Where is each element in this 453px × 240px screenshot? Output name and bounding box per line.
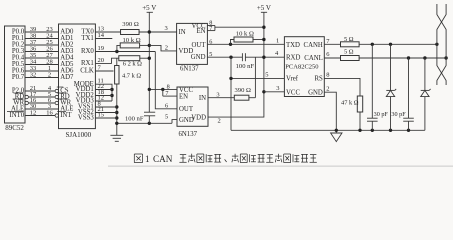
wire 89C52 INT0 (pin 12) to SJA1000 INT (pin 16): [7, 110, 72, 120]
caption: figure 1 CAN bus controller / driver circuit connection (CJK drawn as glyph strokes): [134, 154, 142, 163]
svg-text:7: 7: [165, 90, 168, 97]
svg-text:Vref: Vref: [286, 76, 299, 83]
wire VDD3 pin 12: [95, 94, 112, 101]
resistor 10k (RX0 pull-up): [117, 43, 151, 52]
wire RX0 drop to U2 OUT pin 6: [155, 52, 177, 110]
svg-text:12: 12: [30, 110, 37, 117]
label 6N137 (U2): [179, 131, 198, 138]
svg-text:RX1: RX1: [81, 60, 94, 67]
svg-text:30 pF: 30 pF: [391, 111, 406, 118]
twisted-pair CAN bus: [437, 4, 446, 85]
capacitor 100nF (series on GND5 line): [242, 53, 245, 61]
PCA82C250 pin names: [286, 42, 323, 97]
wire VSS2 pin 21: [95, 106, 116, 113]
value label 47 k ohm: [341, 100, 359, 107]
power +5V symbol (left rail): [142, 4, 156, 13]
wire P0.4 (pin 35) to AD4 (pin 27): [12, 52, 74, 62]
svg-text:+5 V: +5 V: [257, 4, 271, 12]
svg-text:INT: INT: [60, 112, 72, 119]
svg-text:INT0: INT0: [9, 112, 24, 119]
wire P0.5 (pin 34) to AD5 (pin 28): [12, 59, 74, 69]
svg-text:RS: RS: [314, 76, 323, 83]
wire Vref pin 5: [231, 72, 284, 79]
wire CANH pin 7: [324, 38, 340, 45]
wire 89C52 ALE (pin 30) to SJA1000 ALE (pin 3): [11, 103, 73, 113]
resistor 5 ohm (CANH): [341, 42, 360, 47]
svg-text:6N137: 6N137: [179, 131, 198, 138]
svg-text:6N137: 6N137: [180, 66, 199, 73]
svg-text:15: 15: [98, 111, 105, 118]
svg-text:2: 2: [326, 85, 329, 92]
resistor 6.2k (RX1 to +5V): [119, 56, 151, 61]
svg-text:5 Ω: 5 Ω: [344, 36, 354, 43]
wire P0.7 (pin 32) to AD7 (pin 2): [12, 72, 74, 82]
svg-text:3: 3: [165, 25, 168, 32]
wire +5V rail #2 vertical: [263, 12, 265, 92]
wire U1 GND pin 5 / 100nF / RXD pin 4: [207, 50, 284, 59]
ground rail A (isolated side): [115, 120, 177, 125]
svg-text:3: 3: [216, 92, 219, 99]
svg-text:OUT: OUT: [179, 106, 194, 113]
wire +5V rail #1 vertical: [148, 12, 150, 112]
wire P0.0 (pin 39) to AD0 (pin 23): [12, 26, 74, 35]
svg-text:P0.7: P0.7: [12, 74, 25, 81]
value label 6.2k ohm: [123, 60, 142, 67]
value label 10 k ohm: [123, 37, 141, 44]
wire U1 OUT pin 6 to PCA82C250 TXD pin 1: [207, 38, 284, 46]
value label 5 ohm (CANL): [344, 49, 354, 56]
svg-text:6: 6: [209, 39, 212, 46]
value label 100 nF (right): [236, 63, 255, 70]
wire VDD1 pin 22: [95, 83, 112, 90]
wire TX0 pin 13: [95, 25, 120, 32]
svg-text:OUT: OUT: [192, 42, 207, 49]
IC SJA1000 (CAN controller): [59, 24, 96, 129]
ground symbol (triangle, transceiver GND): [331, 130, 342, 141]
wire 89C52 P2.0 (pin 21) to SJA1000 CS (pin 4): [12, 85, 69, 95]
value label 5 ohm (CANH): [344, 36, 354, 43]
resistor 390 ohm (U2 IN line): [234, 95, 249, 100]
svg-text:GND: GND: [191, 54, 206, 61]
resistor 5 ohm (CANL): [341, 56, 360, 61]
wire CANL drop to zener D2: [424, 58, 426, 90]
svg-text:47 k Ω: 47 k Ω: [341, 100, 359, 107]
svg-text:6: 6: [165, 103, 168, 110]
wire P0.2 (pin 37) to AD2 (pin 25): [12, 39, 74, 49]
wire RX0 pin 19: [95, 45, 155, 53]
svg-text:RX0: RX0: [81, 48, 94, 55]
value label 390 ohm: [122, 21, 139, 28]
wire P0.3 (pin 36) to AD3 (pin 26): [12, 46, 74, 56]
wire CANH drop to 30pF cap C1: [371, 44, 373, 118]
svg-text:100 nF: 100 nF: [236, 63, 255, 70]
value label 30 pF (C2): [391, 111, 406, 118]
svg-text:PCA82C250: PCA82C250: [285, 64, 318, 71]
svg-text:CANH: CANH: [304, 42, 323, 49]
wire CANH drop to zener D1: [390, 44, 392, 90]
svg-text:1: 1: [145, 154, 150, 164]
resistor 10k (U1 OUT pull-up): [231, 37, 266, 44]
svg-text:3: 3: [276, 85, 279, 92]
wire CANL pin 6: [324, 51, 340, 58]
svg-text:CANL: CANL: [304, 55, 323, 62]
resistor 390 ohm (TX0 line): [121, 30, 140, 35]
power +5V symbol (right rail): [257, 4, 271, 13]
svg-text:CLK: CLK: [80, 68, 94, 75]
wire 390 ohm to +5V rail to opto U1 IN pin 3: [139, 25, 177, 34]
svg-text:32: 32: [30, 72, 37, 79]
SJA1000 right-side pin names: [74, 29, 95, 122]
wire GND pin 2 to ground: [324, 85, 336, 130]
svg-text:2: 2: [218, 118, 221, 125]
U2 pin names: [179, 87, 206, 124]
svg-text:VDD: VDD: [191, 114, 206, 121]
svg-text:89C52: 89C52: [5, 124, 24, 132]
op to U1 6N137 (transmit optocoupler): [177, 23, 208, 64]
value label 100 nF (left): [125, 115, 144, 122]
svg-text:VCC: VCC: [286, 89, 300, 96]
wire U2 VDD pin 2 to +5V rail2: [208, 90, 266, 124]
wire TX1 pin 14 stub: [95, 32, 112, 39]
wire VCC pin 3 from +5V rail2: [264, 85, 285, 92]
value label 390 ohm (right): [235, 87, 252, 94]
svg-text:5: 5: [209, 51, 212, 58]
ground rail B: [231, 129, 425, 132]
capacitor 30pF C2: [403, 118, 414, 130]
zener diode D2 (CANL protection): [421, 89, 431, 130]
svg-text:CAN: CAN: [153, 154, 173, 164]
svg-text:TX1: TX1: [81, 35, 93, 42]
wire +5V to opto U1 VDD pin 2: [149, 45, 176, 52]
wire P0.1 (pin 38) to AD1 (pin 24): [12, 33, 73, 43]
svg-text:14: 14: [98, 32, 105, 39]
svg-text:30 pF: 30 pF: [374, 111, 389, 118]
svg-text:1: 1: [276, 38, 279, 45]
zener diode D1 (CANH protection): [386, 89, 396, 130]
svg-text:390 Ω: 390 Ω: [235, 87, 252, 94]
svg-text:19: 19: [98, 45, 105, 52]
svg-text:390 Ω: 390 Ω: [122, 21, 139, 28]
wire U1 VCC pin8 / EN pin7 to +5V: [207, 19, 265, 32]
wire CANH to bus: [359, 43, 438, 46]
wire VSS bus vertical (4.7k bottom to ground): [115, 84, 118, 123]
wire VSS1 pin 8: [95, 100, 116, 107]
svg-text:10 k Ω: 10 k Ω: [123, 37, 141, 44]
svg-text:4.7 k Ω: 4.7 k Ω: [122, 72, 141, 79]
wire CANL to bus: [359, 56, 448, 59]
svg-text:SJA1000: SJA1000: [66, 131, 92, 139]
IC PCA82C250 (CAN transceiver): [284, 37, 324, 97]
svg-text:GND: GND: [308, 89, 323, 96]
wire 89C52 WR (pin 16) to SJA1000 WR (pin 6): [13, 97, 72, 107]
svg-text:6 2 k Ω: 6 2 k Ω: [123, 60, 142, 67]
IC 89C52 (microcontroller): [5, 26, 26, 123]
wire MODE pin 11 to VDD bus: [95, 78, 113, 101]
capacitor 100nF (rail1 decoupling): [144, 112, 155, 123]
svg-text:RXD: RXD: [286, 54, 300, 61]
label 89C52: [5, 124, 24, 132]
svg-text:5: 5: [265, 72, 268, 79]
wire +5V rail1 to U2 VCC pin8 / EN pin7: [148, 83, 177, 97]
svg-text:AD7: AD7: [60, 74, 74, 81]
resistor 47k (RS slope): [357, 96, 362, 130]
wire CANL drop to 30pF cap C2: [408, 58, 410, 118]
wire 89C52 RD (pin 17) to SJA1000 RD (pin 5): [14, 91, 70, 101]
svg-text:20: 20: [98, 57, 105, 64]
svg-text:100 nF: 100 nF: [125, 115, 144, 122]
opto U2 6N137 (receive optocoupler): [177, 87, 208, 126]
svg-text:7: 7: [209, 25, 212, 32]
label 6N137 (U1): [180, 66, 199, 73]
wire U2 IN pin 3 through 390 ohm to RXD line: [208, 57, 255, 98]
svg-text:EN: EN: [196, 28, 205, 35]
wire VSS3 pin 15: [95, 111, 116, 118]
svg-text:8: 8: [326, 72, 329, 79]
wire ground drop (U1 GND to ground rail B): [229, 57, 232, 130]
svg-text:TXD: TXD: [286, 42, 300, 49]
value label 4.7k ohm: [122, 72, 141, 79]
svg-text:5: 5: [165, 114, 168, 121]
svg-text:IN: IN: [179, 29, 186, 36]
value label 10 k ohm (right): [236, 30, 254, 37]
wire P0.6 (pin 33) to AD6 (pin 1): [12, 65, 74, 75]
svg-text:2: 2: [48, 72, 51, 79]
resistor 4.7k (RX1 to VSS): [115, 58, 119, 84]
svg-text:EN: EN: [179, 93, 188, 100]
svg-text:+5 V: +5 V: [142, 4, 156, 12]
svg-text:10 k Ω: 10 k Ω: [236, 30, 254, 37]
wire VDD2 pin 18: [95, 89, 112, 96]
wire RX1 pin 20: [95, 57, 118, 64]
label PCA82C250: [285, 64, 318, 71]
U1 pin names: [179, 23, 207, 61]
svg-text:16: 16: [46, 110, 53, 117]
svg-text:2: 2: [165, 45, 168, 52]
wire RS pin 8 to 47k: [324, 72, 360, 96]
svg-text:5 Ω: 5 Ω: [344, 49, 354, 56]
wire CLK pin 7 stub: [95, 64, 113, 71]
label SJA1000: [66, 131, 92, 139]
ground symbol (SJA1000 VSS, 3-bar): [110, 123, 123, 141]
scan shadow bottom edge: [108, 165, 453, 167]
value label 30 pF (C1): [374, 111, 389, 118]
capacitor 30pF C1: [367, 118, 378, 130]
svg-text:IN: IN: [199, 95, 206, 102]
svg-text:VSS3: VSS3: [78, 115, 94, 122]
U2 GND pin 5 label: [165, 114, 168, 121]
